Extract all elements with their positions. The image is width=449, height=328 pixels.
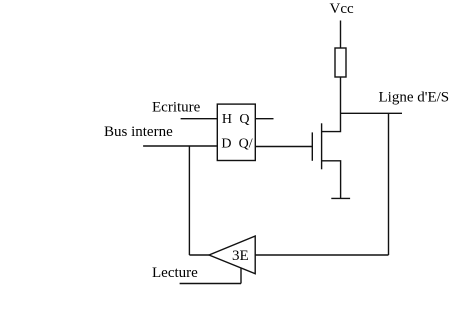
wire enable vertical [240,268,242,284]
wire right vertical (Ligne to buffer output) [388,113,390,255]
svg-text:Q: Q [239,112,249,127]
ground [331,197,350,199]
wire resistor to drain corner [322,77,341,132]
wire Lecture lead [180,283,241,285]
wire Q output stub [255,118,273,120]
wire H input (Ecriture) [181,118,218,120]
latch U1 box [217,104,255,160]
wire buffer output [255,254,388,256]
tri-state buffer 3E [209,236,255,274]
wire Ligne d'E/S horizontal [341,112,403,114]
svg-text:Q/: Q/ [239,137,253,152]
svg-text:Ligne d'E/S: Ligne d'E/S [379,90,449,106]
svg-text:H: H [222,112,232,127]
wire Vcc lead [340,21,342,49]
transistor Q1 channel [321,123,323,169]
wire Q/ output to gate [255,146,312,148]
transistor Q1 gate bar [311,132,313,160]
resistor R (pull-up) [335,48,346,77]
wire D input (Bus interne) [143,145,217,147]
wire buffer input [189,254,209,256]
svg-text:Lecture: Lecture [152,265,198,281]
svg-text:Bus interne: Bus interne [104,124,173,140]
svg-text:3E: 3E [232,248,249,264]
svg-text:D: D [221,137,231,152]
svg-text:Ecriture: Ecriture [152,99,201,115]
wire bus vertical [188,146,190,255]
svg-text:Vcc: Vcc [330,1,354,17]
wire source lead [322,161,341,199]
